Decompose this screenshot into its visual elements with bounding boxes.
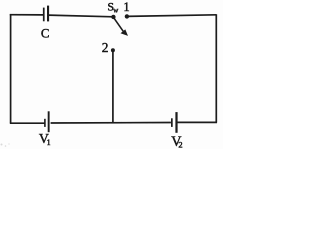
svg-text:2: 2 bbox=[102, 40, 109, 55]
switch S blade bbox=[114, 17, 129, 36]
wire capacitor-to-switch segment bbox=[48, 15, 113, 17]
wire top-left segment bbox=[10, 14, 43, 16]
svg-text:1: 1 bbox=[123, 0, 129, 14]
battery V1 plates bbox=[44, 111, 50, 132]
svg-text:2: 2 bbox=[178, 140, 182, 149]
node S pivot bbox=[111, 15, 115, 19]
svg-text:C: C bbox=[41, 26, 50, 40]
wire bottom-right segment bbox=[177, 121, 217, 123]
wire bottom-middle segment bbox=[51, 122, 171, 125]
capacitor C plates bbox=[43, 6, 49, 22]
wire left side bbox=[10, 14, 12, 123]
wire middle branch bbox=[112, 50, 114, 123]
svg-text:w: w bbox=[113, 7, 119, 15]
wire top-right segment bbox=[127, 15, 216, 17]
wire right side bbox=[215, 14, 217, 122]
node 1 contact bbox=[125, 14, 129, 18]
wire bottom-left segment bbox=[10, 122, 45, 124]
scan speckles bottom-left bbox=[1, 143, 10, 146]
svg-text:1: 1 bbox=[47, 138, 51, 147]
battery V2 plates bbox=[171, 112, 178, 133]
node 2 contact bbox=[111, 48, 115, 52]
